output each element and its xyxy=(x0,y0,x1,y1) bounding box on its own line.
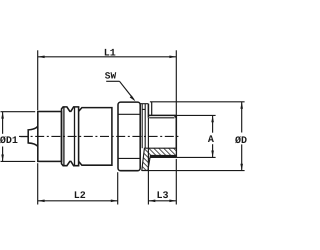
port block outline (sectioned female port) xyxy=(142,102,245,171)
dimension L3 xyxy=(148,118,176,205)
svg-text:A: A xyxy=(208,135,214,146)
svg-text:L2: L2 xyxy=(74,191,86,202)
centerline xyxy=(19,135,180,137)
spacer rings between hex and thread xyxy=(140,104,148,149)
dimension A xyxy=(176,115,215,157)
hex nut xyxy=(118,102,140,171)
poppet valve tip xyxy=(28,126,38,147)
locking sleeve with V-groove xyxy=(62,107,79,166)
dimension ØD1 xyxy=(1,112,36,162)
svg-text:ØD: ØD xyxy=(235,136,247,147)
dimension L2 xyxy=(38,163,118,204)
dimension L1 xyxy=(38,50,177,115)
svg-text:SW: SW xyxy=(105,70,117,81)
dimension ØD xyxy=(240,102,243,171)
svg-text:L3: L3 xyxy=(156,191,168,202)
label L1 xyxy=(104,48,116,59)
collar (body front) xyxy=(38,112,62,162)
svg-text:ØD1: ØD1 xyxy=(0,136,18,147)
label SW with leader xyxy=(106,81,135,101)
sleeve body cylinder xyxy=(79,108,112,166)
threaded stud xyxy=(148,104,176,158)
svg-text:L1: L1 xyxy=(104,48,116,59)
hatched section of port block xyxy=(142,148,177,170)
